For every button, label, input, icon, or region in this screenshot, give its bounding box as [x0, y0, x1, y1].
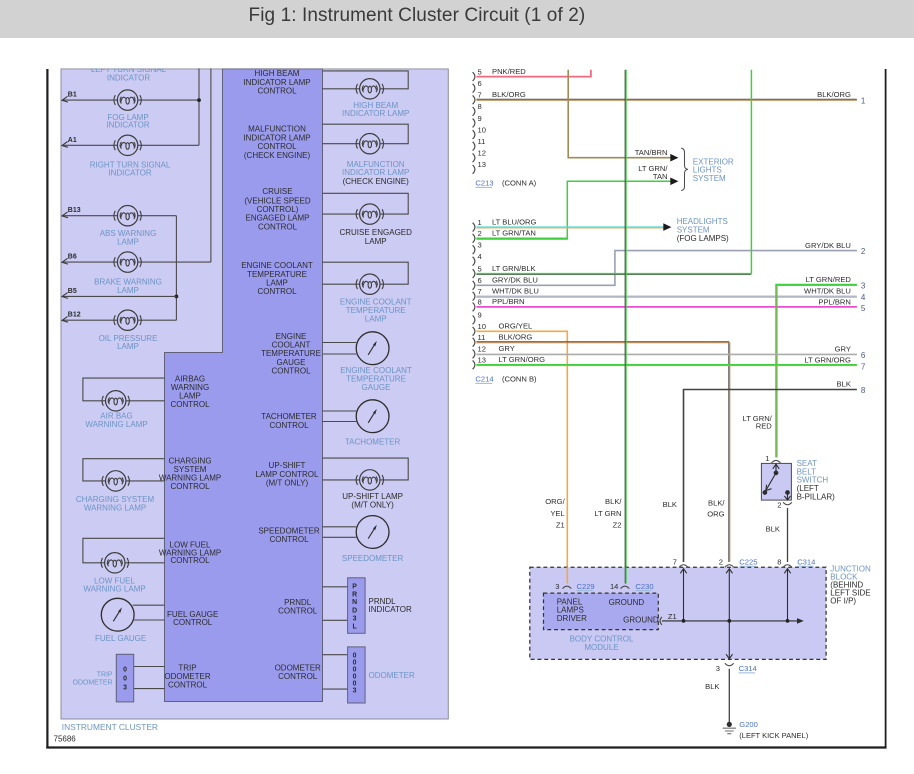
svg-text:2: 2 [719, 558, 723, 567]
svg-text:ENGINE COOLANT: ENGINE COOLANT [241, 261, 313, 270]
svg-text:BLK/: BLK/ [708, 499, 725, 508]
svg-text:LAMP: LAMP [365, 237, 387, 246]
svg-text:BLK/ORG: BLK/ORG [492, 90, 526, 99]
node vertical wire from top to A1 row [198, 60, 200, 145]
wire ect lamp loop [323, 262, 409, 284]
connector C214 pin 11 [473, 338, 475, 347]
svg-text:(VEHICLE SPEED: (VEHICLE SPEED [244, 196, 310, 205]
svg-text:13: 13 [478, 356, 486, 365]
svg-text:TACHOMETER: TACHOMETER [345, 438, 401, 447]
wire B6 row [63, 261, 118, 263]
wire BLK/ORG pin 7 to edge 1 [476, 98, 857, 100]
svg-text:CONTROL: CONTROL [170, 482, 210, 491]
svg-text:13: 13 [478, 160, 486, 169]
svg-text:INDICATOR: INDICATOR [108, 169, 151, 178]
wire tachometer wires [323, 410, 357, 412]
connector bump junction pin 2 C225 [725, 565, 734, 567]
wire odometer wires [323, 654, 348, 656]
svg-text:GROUND: GROUND [623, 615, 659, 624]
svg-text:C314: C314 [797, 558, 815, 567]
svg-text:TACHOMETER: TACHOMETER [261, 412, 317, 421]
svg-text:LAMP: LAMP [365, 314, 387, 323]
wire WHT/DK BLU pin 7 to edge 4 [476, 295, 857, 297]
svg-text:SYSTEM: SYSTEM [693, 174, 726, 183]
svg-text:CONTROL: CONTROL [269, 421, 309, 430]
svg-text:LT GRN/TAN: LT GRN/TAN [492, 229, 536, 238]
connector C214 pin 13 [473, 360, 475, 369]
gauge fuel gauge [101, 598, 134, 631]
svg-text:PNK/RED: PNK/RED [492, 67, 526, 76]
svg-text:GROUND: GROUND [609, 598, 645, 607]
PLACE-RIGHT [530, 454, 871, 740]
svg-text:8: 8 [777, 558, 781, 567]
wire LT BLU/ORG pin 1 to headlights [476, 226, 664, 228]
svg-text:N: N [352, 599, 357, 606]
svg-text:0: 0 [123, 667, 127, 674]
wire B1 row [63, 99, 118, 101]
wire trip odometer wires [134, 666, 165, 668]
connector bump Z1 output [660, 617, 662, 625]
svg-text:B1: B1 [68, 92, 77, 99]
connector C314 bottom pin 3 [725, 663, 734, 665]
svg-text:ORG/YEL: ORG/YEL [499, 322, 533, 331]
svg-text:SPEEDOMETER: SPEEDOMETER [258, 526, 320, 535]
svg-text:LAMP: LAMP [117, 286, 139, 295]
svg-text:CONTROL: CONTROL [278, 672, 318, 681]
svg-text:3: 3 [555, 582, 559, 591]
svg-text:INDICATOR: INDICATOR [106, 121, 149, 130]
wire junction pin 7 vertical [680, 569, 686, 621]
svg-text:GAUGE: GAUGE [362, 383, 391, 392]
svg-text:9: 9 [478, 311, 482, 320]
svg-text:OF I/P): OF I/P) [830, 597, 856, 606]
wire BLK/LT GRN from top to C230 [624, 70, 626, 584]
svg-text:CONTROL: CONTROL [173, 618, 213, 627]
svg-text:6: 6 [478, 276, 482, 285]
svg-text:CONTROL: CONTROL [278, 606, 318, 615]
svg-text:HIGH BEAM: HIGH BEAM [255, 69, 300, 78]
wire GRY pin 12 to edge 6 [476, 353, 857, 355]
lamp engine coolant temperature lamp [356, 274, 383, 294]
svg-text:TRIP: TRIP [97, 671, 113, 678]
wire ORG/YEL inside junction block [566, 567, 568, 583]
svg-text:ENGAGED LAMP: ENGAGED LAMP [245, 214, 309, 223]
body control module dashed box [544, 593, 659, 630]
connector C213 pin 12 [473, 153, 475, 162]
svg-text:CONTROL: CONTROL [258, 222, 298, 231]
svg-text:3: 3 [478, 241, 482, 250]
svg-text:SWITCH: SWITCH [797, 476, 829, 485]
junction block dashed box [530, 567, 826, 659]
svg-text:BLK/ORG: BLK/ORG [499, 333, 533, 342]
connector C214 pin 8 [473, 303, 475, 312]
svg-text:LAMP: LAMP [266, 279, 288, 288]
wire LT GRN/BLK pin 5 to top [476, 70, 751, 274]
svg-text:(M/T ONLY): (M/T ONLY) [351, 501, 394, 510]
gauge engine coolant temperature gauge [356, 332, 389, 365]
gauge tachometer [356, 400, 389, 433]
odometer display [348, 647, 366, 703]
wire ORG/YEL pin 10 to C229 [476, 331, 567, 583]
svg-text:7: 7 [478, 287, 482, 296]
svg-text:GRY/DK BLU: GRY/DK BLU [492, 276, 538, 285]
svg-text:GRY: GRY [499, 344, 515, 353]
frame border left [46, 69, 48, 749]
wire PNK/RED [476, 70, 591, 77]
svg-text:INDICATOR LAMP: INDICATOR LAMP [243, 78, 310, 87]
seat belt switch box [761, 463, 791, 500]
svg-text:P: P [352, 584, 357, 591]
svg-text:11: 11 [478, 137, 486, 146]
svg-text:INDICATOR LAMP: INDICATOR LAMP [243, 133, 310, 142]
svg-text:WARNING LAMP: WARNING LAMP [85, 420, 147, 429]
svg-text:A1: A1 [68, 137, 77, 144]
svg-text:Z1: Z1 [556, 521, 565, 530]
connector bump junction pin 7 [679, 565, 688, 567]
svg-text:TAN: TAN [653, 172, 668, 181]
svg-text:4: 4 [861, 293, 866, 302]
wire B13 row [63, 215, 118, 217]
connector C213 pin 8 [473, 107, 475, 116]
node Z1 bus [662, 618, 804, 624]
svg-text:ODOMETER: ODOMETER [369, 671, 415, 680]
svg-text:(LEFT KICK PANEL): (LEFT KICK PANEL) [739, 731, 808, 740]
svg-text:5: 5 [861, 304, 866, 313]
svg-text:D: D [352, 607, 357, 614]
svg-text:LAMP: LAMP [117, 237, 139, 246]
svg-text:RED: RED [756, 422, 773, 431]
frame border bottom [46, 746, 886, 748]
svg-text:1: 1 [861, 96, 866, 105]
wire low fuel lamp loop [83, 538, 165, 563]
svg-text:YEL: YEL [550, 509, 564, 518]
wire GRY/DK BLU pin 6 to edge 2 [476, 251, 857, 286]
svg-text:PPL/BRN: PPL/BRN [492, 297, 525, 306]
svg-text:BLK: BLK [766, 525, 780, 534]
svg-text:B5: B5 [68, 288, 77, 295]
svg-text:ODOMETER: ODOMETER [73, 680, 113, 687]
instrument cluster box [61, 69, 448, 719]
svg-text:7: 7 [478, 91, 482, 100]
svg-text:SPEEDOMETER: SPEEDOMETER [342, 554, 404, 563]
svg-text:3: 3 [353, 688, 357, 695]
wire PPL/BRN pin 8 to edge 5 [476, 306, 857, 308]
wire charging lamp loop [83, 459, 165, 481]
prndl indicator display [348, 578, 366, 634]
node vertical wire from top to B6 row [210, 60, 212, 262]
lamp malfunction indicator lamp [356, 134, 383, 154]
svg-text:75686: 75686 [54, 735, 77, 744]
wire BLK C314 to ground [728, 669, 730, 722]
svg-text:2: 2 [861, 247, 866, 256]
svg-text:0: 0 [353, 652, 357, 659]
connector C213 pin 9 [473, 119, 475, 128]
svg-text:(M/T ONLY): (M/T ONLY) [266, 479, 309, 488]
wire vertical B13 to B12 [175, 216, 177, 321]
lamp brake warning lamp [114, 252, 141, 272]
node junction dot pin7/Z1 [682, 619, 686, 623]
connector bump seat belt pin 1 [772, 460, 781, 462]
svg-text:G200: G200 [739, 720, 758, 729]
svg-text:CONTROL: CONTROL [257, 87, 297, 96]
svg-text:UP-SHIFT: UP-SHIFT [269, 461, 306, 470]
svg-text:Z1: Z1 [668, 612, 677, 621]
svg-text:3: 3 [123, 684, 127, 691]
svg-text:CONTROL: CONTROL [257, 142, 297, 151]
svg-text:ENGINE: ENGINE [276, 332, 307, 341]
svg-text:0: 0 [353, 659, 357, 666]
wire LT GRN/TAN pin 2 to exterior lights [476, 181, 671, 238]
switch contacts seat belt [763, 464, 790, 500]
wire ect gauge wires [323, 342, 357, 344]
frame border right [885, 69, 887, 749]
svg-text:B-PILLAR): B-PILLAR) [797, 493, 836, 502]
PLACE-LEFT [473, 67, 866, 584]
svg-text:1: 1 [478, 218, 482, 227]
svg-text:LT GRN/RED: LT GRN/RED [806, 275, 852, 284]
connector C214 pin 3 [473, 245, 475, 254]
svg-text:C229: C229 [577, 582, 595, 591]
connector C214 pin 6 [473, 281, 475, 290]
svg-text:BLK/: BLK/ [605, 497, 622, 506]
connector C213 pin 5 [473, 72, 475, 81]
svg-text:3: 3 [353, 616, 357, 623]
svg-text:3: 3 [861, 282, 866, 291]
svg-text:0: 0 [353, 674, 357, 681]
connector C213 pin 11 [473, 142, 475, 151]
wire cruise loop [323, 193, 409, 214]
svg-text:WARNING LAMP: WARNING LAMP [83, 585, 145, 594]
svg-text:CRUISE: CRUISE [262, 187, 292, 196]
connector C214 pin 10 [473, 327, 475, 336]
svg-text:2: 2 [777, 501, 781, 510]
connector C214 pin 12 [473, 350, 475, 359]
wire BLK edge 8 to junction pin 7 [684, 390, 857, 563]
node junction dot pin8/Z1 [786, 619, 790, 623]
ground G200 [723, 722, 736, 734]
wire B5 row [63, 295, 177, 297]
svg-text:R: R [352, 591, 357, 598]
gauge speedometer [356, 516, 389, 549]
svg-text:CONTROL: CONTROL [271, 367, 311, 376]
lamp low fuel warning lamp [101, 553, 128, 573]
svg-text:B13: B13 [68, 207, 81, 214]
svg-text:8: 8 [861, 386, 866, 395]
svg-text:LT GRN/ORG: LT GRN/ORG [499, 355, 546, 364]
wire prndl wires [323, 586, 348, 588]
svg-text:BLK/ORG: BLK/ORG [817, 90, 851, 99]
svg-text:TAN/BRN: TAN/BRN [635, 148, 668, 157]
svg-text:12: 12 [478, 149, 486, 158]
title bar [0, 0, 914, 38]
lamp abs warning lamp [114, 206, 141, 226]
svg-text:LT GRN/BLK: LT GRN/BLK [492, 264, 536, 273]
svg-text:0: 0 [353, 681, 357, 688]
svg-text:C214: C214 [475, 375, 493, 384]
svg-text:PPL/BRN: PPL/BRN [818, 297, 851, 306]
svg-text:8: 8 [478, 102, 482, 111]
svg-text:CRUISE ENGAGED: CRUISE ENGAGED [339, 228, 412, 237]
connector C214 pin 7 [473, 292, 475, 301]
svg-text:12: 12 [478, 345, 486, 354]
svg-text:(CONN A): (CONN A) [502, 179, 537, 188]
svg-text:LT GRN/ORG: LT GRN/ORG [804, 355, 851, 364]
svg-text:C225: C225 [739, 558, 757, 567]
svg-text:C213: C213 [475, 179, 493, 188]
connector C213 pin 10 [473, 130, 475, 139]
node junction dot B5 [175, 295, 179, 299]
svg-text:L: L [352, 624, 356, 631]
wire junction pin 2 vertical through Z1 to C314 bottom [726, 569, 732, 659]
lamp right turn signal indicator [114, 135, 141, 155]
svg-text:ODOMETER: ODOMETER [164, 672, 210, 681]
svg-text:BLK: BLK [663, 500, 677, 509]
wire LT GRN/ORG pin 13 to edge 7 [476, 364, 857, 366]
svg-text:GAUGE: GAUGE [277, 358, 306, 367]
svg-text:CONTROL: CONTROL [269, 535, 309, 544]
svg-text:1: 1 [765, 454, 769, 463]
wire junction pin 8 vertical [784, 569, 790, 621]
svg-text:CONTROL: CONTROL [168, 681, 208, 690]
connector C214 pin 9 [473, 316, 475, 325]
svg-text:ORG: ORG [707, 509, 724, 518]
instrument cluster control box (dark) [165, 69, 323, 702]
svg-text:FUEL GAUGE: FUEL GAUGE [95, 634, 146, 643]
svg-text:LAMPS: LAMPS [557, 606, 584, 615]
node junction dot pin2/Z1 [727, 619, 731, 623]
svg-text:4: 4 [478, 252, 482, 261]
lamp cruise engaged lamp [356, 204, 383, 224]
svg-text:DRIVER: DRIVER [557, 614, 587, 623]
svg-text:5: 5 [478, 264, 482, 273]
wire A1 row [63, 144, 118, 146]
svg-text:B6: B6 [68, 254, 77, 261]
brace exterior lights [681, 148, 688, 190]
lamp air bag warning lamp [102, 391, 129, 411]
wire fuel gauge wires [133, 604, 165, 606]
svg-text:INSTRUMENT CLUSTER: INSTRUMENT CLUSTER [62, 722, 158, 732]
svg-text:INDICATOR: INDICATOR [369, 605, 412, 614]
svg-text:6: 6 [478, 79, 482, 88]
connector bump C230 [621, 586, 630, 588]
wire BLK seat belt to junction pin 8 [787, 508, 789, 562]
wire BLK/LT GRN inside junction block [624, 567, 626, 583]
svg-text:3: 3 [716, 664, 720, 673]
svg-text:C230: C230 [635, 582, 653, 591]
connector C213 pin 7 [473, 95, 475, 104]
svg-text:0: 0 [353, 666, 357, 673]
lamp fog lamp indicator [114, 90, 141, 110]
wire airbag lamp loop [83, 378, 165, 401]
svg-text:6: 6 [861, 351, 866, 360]
svg-text:B12: B12 [68, 312, 81, 319]
lamp oil pressure lamp [114, 310, 141, 330]
svg-text:8: 8 [478, 298, 482, 307]
connector bump C229 [563, 586, 572, 588]
svg-text:CONTROL: CONTROL [170, 556, 210, 565]
wire malfunction loop [323, 124, 409, 144]
svg-text:INDICATOR LAMP: INDICATOR LAMP [342, 168, 409, 177]
connector C213 pin 6 [473, 84, 475, 93]
lamp high beam indicator lamp [356, 79, 383, 99]
svg-text:GRY: GRY [835, 345, 851, 354]
svg-text:BLK: BLK [705, 682, 719, 691]
svg-text:0: 0 [123, 676, 127, 683]
svg-text:WARNING LAMP: WARNING LAMP [84, 503, 146, 512]
svg-text:7: 7 [861, 362, 866, 371]
svg-text:2: 2 [478, 229, 482, 238]
svg-text:9: 9 [478, 114, 482, 123]
svg-text:MALFUNCTION: MALFUNCTION [248, 125, 306, 134]
connector C214 pin 5 [473, 269, 475, 278]
svg-text:WHT/DK BLU: WHT/DK BLU [804, 287, 851, 296]
svg-text:TRIP: TRIP [178, 663, 196, 672]
wire speedometer wires [323, 526, 357, 528]
svg-text:Z2: Z2 [613, 521, 622, 530]
svg-text:INDICATOR: INDICATOR [107, 74, 150, 83]
svg-text:10: 10 [478, 322, 486, 331]
svg-text:(CONN B): (CONN B) [502, 375, 537, 384]
connector C214 pin 2 [473, 234, 475, 243]
wire LT GRN/RED edge 3 to seat belt switch [776, 285, 857, 458]
svg-text:CONTROL: CONTROL [257, 287, 297, 296]
lamp charging system warning lamp [102, 471, 129, 491]
svg-text:(CHECK ENGINE): (CHECK ENGINE) [343, 177, 410, 186]
svg-text:C314: C314 [739, 664, 757, 673]
wire up-shift loop [323, 458, 409, 480]
wire high beam loop [323, 71, 409, 89]
svg-text:WHT/DK BLU: WHT/DK BLU [492, 287, 539, 296]
svg-text:ORG/: ORG/ [545, 497, 565, 506]
svg-text:5: 5 [478, 67, 482, 76]
wire B12 row [63, 319, 118, 321]
svg-text:(FOG LAMPS): (FOG LAMPS) [677, 234, 729, 243]
svg-text:LT BLU/ORG: LT BLU/ORG [492, 217, 537, 226]
connector bump junction pin 8 C314 [783, 565, 792, 567]
connector C214 pin 4 [473, 257, 475, 266]
svg-text:14: 14 [610, 582, 618, 591]
svg-text:TEMPERATURE: TEMPERATURE [261, 349, 321, 358]
svg-text:LT GRN: LT GRN [594, 509, 621, 518]
svg-text:11: 11 [478, 333, 486, 342]
svg-text:CONTROL: CONTROL [170, 400, 210, 409]
trip odometer display [116, 654, 133, 702]
connector C213 pin 13 [473, 165, 475, 174]
svg-text:(CHECK ENGINE): (CHECK ENGINE) [244, 151, 311, 160]
svg-text:GRY/DK BLU: GRY/DK BLU [805, 241, 851, 250]
svg-text:MODULE: MODULE [584, 643, 618, 652]
lamp up-shift lamp [356, 470, 383, 490]
svg-text:LAMP: LAMP [117, 342, 139, 351]
wire TAN/BRN from top to exterior lights [568, 70, 671, 158]
svg-text:INDICATOR LAMP: INDICATOR LAMP [342, 109, 409, 118]
svg-text:10: 10 [478, 125, 486, 134]
svg-text:BLK: BLK [837, 380, 851, 389]
svg-text:7: 7 [673, 558, 677, 567]
connector C214 pin 1 [473, 223, 475, 232]
wire BLK/ORG pin 11 to C225 [476, 342, 728, 562]
